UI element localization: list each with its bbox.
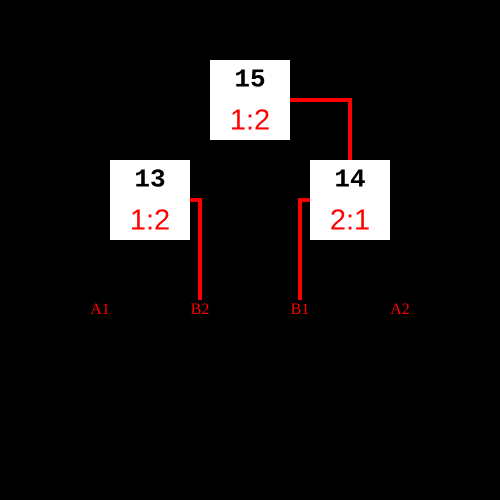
svg-text:B1: B1 [291,301,310,318]
svg-text:A1: A1 [90,301,110,318]
match box 13 [110,160,190,240]
svg-text:14: 14 [334,165,365,195]
wire: horizontal from box15 right edge [290,98,352,102]
svg-text:1:2: 1:2 [230,105,270,137]
match box 14 [310,160,390,240]
match box 15 [210,60,290,140]
wire: horizontal from box14 left edge [298,198,310,202]
wire: vertical down to label B1 [298,198,302,300]
svg-text:15: 15 [234,65,265,95]
svg-text:B2: B2 [191,301,210,318]
wire: vertical down to label B2 [198,198,202,300]
svg-text:2:1: 2:1 [330,205,370,237]
wire: vertical down to box14 top [348,98,352,160]
svg-text:13: 13 [134,165,165,195]
svg-text:1:2: 1:2 [130,205,170,237]
svg-text:A2: A2 [390,301,410,318]
wire: horizontal from box13 right edge [190,198,202,202]
